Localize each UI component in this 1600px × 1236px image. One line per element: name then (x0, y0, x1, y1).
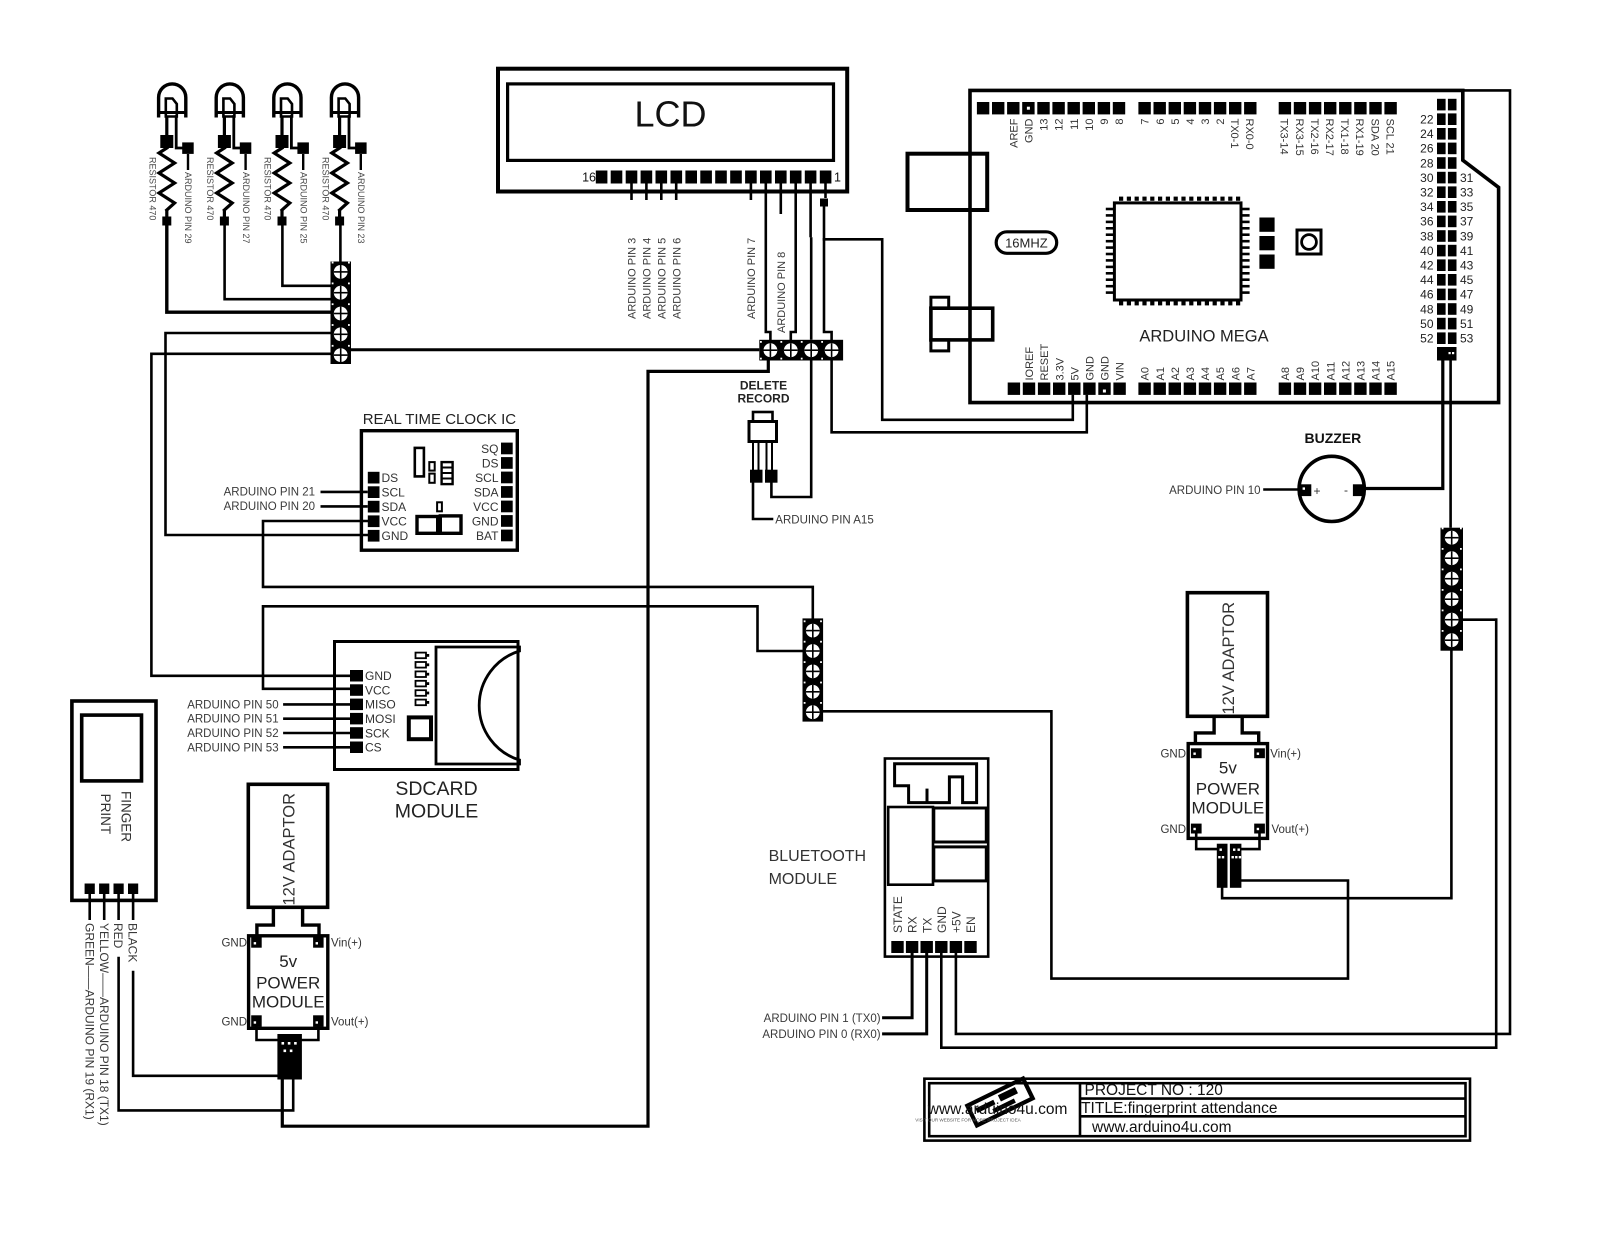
svg-text:ARDUINO PIN 10: ARDUINO PIN 10 (1169, 485, 1260, 497)
svg-text:RESISTOR 470: RESISTOR 470 (320, 157, 330, 220)
svg-text:3: 3 (1200, 119, 1212, 125)
svg-text:24: 24 (1420, 127, 1434, 141)
svg-text:BLUETOOTH: BLUETOOTH (769, 848, 867, 865)
svg-text:BUZZER: BUZZER (1305, 430, 1362, 446)
svg-text:ARDUINO PIN 1 (TX0): ARDUINO PIN 1 (TX0) (764, 1013, 881, 1025)
svg-text:MOSI: MOSI (365, 712, 396, 726)
svg-text:PROJECT NO : 120: PROJECT NO : 120 (1085, 1082, 1224, 1099)
svg-text:+5V: +5V (950, 911, 964, 933)
svg-text:26: 26 (1420, 142, 1434, 156)
svg-text:5v: 5v (1219, 759, 1237, 778)
svg-text:3.3V: 3.3V (1054, 357, 1066, 380)
svg-text:43: 43 (1460, 259, 1474, 273)
svg-text:PRINT: PRINT (98, 794, 113, 835)
svg-text:36: 36 (1420, 215, 1434, 229)
svg-text:TX3-14: TX3-14 (1278, 119, 1290, 155)
svg-text:A15: A15 (1386, 361, 1398, 381)
svg-text:45: 45 (1460, 273, 1474, 287)
svg-text:SCL 21: SCL 21 (1383, 119, 1395, 155)
svg-text:SDA: SDA (474, 485, 499, 499)
svg-text:12: 12 (1054, 119, 1066, 131)
svg-text:SQ: SQ (481, 442, 498, 456)
svg-text:A8: A8 (1280, 367, 1292, 380)
svg-text:RX3-15: RX3-15 (1293, 119, 1305, 156)
svg-text:GND: GND (1085, 356, 1097, 381)
svg-text:SDA 20: SDA 20 (1368, 119, 1380, 156)
svg-text:49: 49 (1460, 302, 1474, 316)
svg-text:A13: A13 (1356, 361, 1368, 381)
svg-text:A1: A1 (1155, 367, 1167, 380)
svg-text:TX0-1: TX0-1 (1228, 119, 1240, 149)
svg-text:10: 10 (1084, 119, 1096, 131)
svg-text:RESISTOR 470: RESISTOR 470 (205, 157, 215, 220)
svg-text:33: 33 (1460, 186, 1474, 200)
svg-text:31: 31 (1460, 171, 1474, 185)
svg-text:VIN: VIN (1115, 362, 1127, 380)
svg-text:13: 13 (1039, 119, 1051, 131)
svg-text:A9: A9 (1295, 367, 1307, 380)
svg-text:-: - (1344, 483, 1348, 497)
svg-text:34: 34 (1420, 200, 1434, 214)
svg-text:REAL TIME CLOCK IC: REAL TIME CLOCK IC (363, 411, 517, 428)
svg-text:22: 22 (1420, 113, 1434, 127)
svg-text:39: 39 (1460, 229, 1474, 243)
svg-text:28: 28 (1420, 156, 1434, 170)
svg-text:A4: A4 (1200, 367, 1212, 380)
svg-text:2: 2 (1215, 119, 1227, 125)
svg-text:6: 6 (1155, 119, 1167, 125)
svg-text:35: 35 (1460, 200, 1474, 214)
svg-text:51: 51 (1460, 317, 1474, 331)
svg-text:ARDUINO PIN 3: ARDUINO PIN 3 (627, 238, 639, 319)
svg-text:RECORD: RECORD (737, 392, 789, 406)
svg-text:5v: 5v (279, 952, 297, 971)
svg-text:RESISTOR 470: RESISTOR 470 (148, 157, 158, 220)
svg-text:+: + (1314, 484, 1321, 498)
svg-text:RX1-19: RX1-19 (1353, 119, 1365, 156)
svg-text:A14: A14 (1371, 361, 1383, 381)
svg-text:ARDUINO PIN 4: ARDUINO PIN 4 (642, 238, 654, 319)
svg-text:32: 32 (1420, 186, 1434, 200)
svg-text:ARDUINO PIN 23: ARDUINO PIN 23 (356, 172, 366, 244)
svg-text:ARDUINO PIN 5: ARDUINO PIN 5 (657, 238, 669, 319)
svg-text:ARDUINO PIN A15: ARDUINO PIN A15 (775, 514, 873, 526)
svg-text:GND: GND (365, 669, 392, 683)
svg-text:MODULE: MODULE (395, 801, 478, 823)
svg-text:ARDUINO PIN 53: ARDUINO PIN 53 (187, 742, 278, 754)
svg-text:TITLE:fingerprint attendance: TITLE:fingerprint attendance (1081, 1100, 1277, 1117)
svg-text:BAT: BAT (476, 529, 499, 543)
svg-text:GND: GND (472, 514, 499, 528)
svg-text:Vin(+): Vin(+) (331, 937, 362, 949)
svg-text:RESET: RESET (1039, 344, 1051, 381)
svg-text:VISIT OUR WEBSITE FOR MORE PRO: VISIT OUR WEBSITE FOR MORE PROJECT IDEA (915, 1118, 1021, 1123)
svg-text:MODULE: MODULE (1192, 799, 1265, 818)
svg-text:7: 7 (1140, 119, 1152, 125)
svg-text:RX2-17: RX2-17 (1323, 119, 1335, 156)
svg-text:GND: GND (221, 1017, 247, 1029)
svg-text:GND: GND (1100, 356, 1112, 381)
svg-text:38: 38 (1420, 229, 1434, 243)
svg-text:44: 44 (1420, 273, 1434, 287)
svg-text:12V ADAPTOR: 12V ADAPTOR (1220, 602, 1238, 715)
svg-text:SDCARD: SDCARD (395, 778, 477, 800)
svg-text:A3: A3 (1185, 367, 1197, 380)
svg-text:DS: DS (382, 471, 399, 485)
svg-text:11: 11 (1069, 119, 1081, 130)
svg-text:ARDUINO PIN 29: ARDUINO PIN 29 (183, 172, 193, 244)
svg-text:46: 46 (1420, 288, 1434, 302)
svg-text:TX1-18: TX1-18 (1338, 119, 1350, 155)
svg-text:YELLOW——ARDUINO PIN 18 (TX1): YELLOW——ARDUINO PIN 18 (TX1) (97, 923, 111, 1126)
svg-text:50: 50 (1420, 317, 1434, 331)
svg-text:4: 4 (1185, 119, 1197, 125)
svg-text:A11: A11 (1325, 362, 1337, 381)
svg-text:ARDUINO PIN 7: ARDUINO PIN 7 (746, 238, 758, 319)
svg-text:DELETE: DELETE (740, 379, 787, 393)
svg-text:ARDUINO PIN 27: ARDUINO PIN 27 (241, 172, 251, 244)
svg-text:FINGER: FINGER (119, 791, 134, 842)
svg-text:GND: GND (935, 906, 949, 933)
svg-text:16MHZ: 16MHZ (1005, 235, 1048, 250)
svg-text:RESISTOR 470: RESISTOR 470 (263, 157, 273, 220)
svg-text:LCD: LCD (634, 94, 706, 135)
svg-text:47: 47 (1460, 288, 1474, 302)
svg-text:42: 42 (1420, 259, 1434, 273)
svg-text:ARDUINO MEGA: ARDUINO MEGA (1139, 327, 1268, 345)
svg-text:GND: GND (221, 937, 247, 949)
svg-text:5V: 5V (1069, 366, 1081, 380)
svg-text:30: 30 (1420, 171, 1434, 185)
svg-text:ARDUINO PIN 20: ARDUINO PIN 20 (224, 501, 315, 513)
svg-text:AREF: AREF (1008, 118, 1020, 148)
svg-text:GND: GND (1160, 749, 1186, 761)
svg-text:ARDUINO PIN 51: ARDUINO PIN 51 (187, 714, 278, 726)
svg-text:SDA: SDA (382, 500, 407, 514)
svg-text:RED: RED (111, 923, 125, 949)
svg-text:40: 40 (1420, 244, 1434, 258)
svg-text:MODULE: MODULE (769, 871, 837, 888)
svg-text:ARDUINO PIN 50: ARDUINO PIN 50 (187, 699, 278, 711)
svg-text:A0: A0 (1140, 367, 1152, 380)
svg-text:POWER: POWER (256, 974, 320, 993)
svg-text:VCC: VCC (473, 500, 499, 514)
svg-text:ARDUINO PIN 6: ARDUINO PIN 6 (672, 238, 684, 319)
svg-text:RX: RX (906, 916, 920, 933)
svg-text:Vout(+): Vout(+) (1272, 824, 1310, 836)
svg-text:A5: A5 (1215, 367, 1227, 380)
svg-text:DS: DS (482, 456, 499, 470)
svg-text:16: 16 (582, 171, 596, 185)
svg-text:www.arduino4u.com: www.arduino4u.com (927, 1101, 1068, 1118)
svg-text:CS: CS (365, 741, 382, 755)
svg-text:MODULE: MODULE (252, 993, 325, 1012)
svg-text:53: 53 (1460, 332, 1474, 346)
svg-text:MISO: MISO (365, 698, 396, 712)
svg-text:ARDUINO PIN 21: ARDUINO PIN 21 (224, 487, 315, 499)
svg-text:ARDUINO PIN 8: ARDUINO PIN 8 (776, 252, 788, 333)
svg-text:EN: EN (964, 916, 978, 933)
svg-text:TX: TX (920, 918, 934, 933)
svg-text:48: 48 (1420, 302, 1434, 316)
svg-text:37: 37 (1460, 215, 1474, 229)
svg-text:A12: A12 (1340, 361, 1352, 381)
svg-text:Vin(+): Vin(+) (1270, 749, 1301, 761)
svg-text:8: 8 (1114, 119, 1126, 125)
svg-text:IOREF: IOREF (1024, 347, 1036, 381)
svg-text:5: 5 (1170, 119, 1182, 125)
svg-text:1: 1 (834, 171, 841, 185)
svg-text:SCL: SCL (382, 486, 406, 500)
svg-text:VCC: VCC (382, 515, 408, 529)
svg-text:GND: GND (1024, 118, 1036, 143)
svg-text:TX2-16: TX2-16 (1308, 119, 1320, 155)
svg-text:BLACK: BLACK (126, 923, 140, 962)
svg-text:9: 9 (1099, 119, 1111, 125)
svg-text:GND: GND (382, 529, 409, 543)
svg-text:www.arduino4u.com: www.arduino4u.com (1091, 1119, 1232, 1136)
svg-text:ARDUINO PIN 0 (RX0): ARDUINO PIN 0 (RX0) (762, 1029, 880, 1041)
svg-text:SCL: SCL (475, 471, 499, 485)
svg-text:41: 41 (1460, 244, 1474, 258)
svg-text:SCK: SCK (365, 726, 390, 740)
svg-text:12V ADAPTOR: 12V ADAPTOR (281, 793, 299, 906)
svg-text:A7: A7 (1245, 367, 1257, 380)
svg-text:ARDUINO PIN 52: ARDUINO PIN 52 (187, 728, 278, 740)
svg-text:GREEN——ARDUINO PIN 19 (RX1): GREEN——ARDUINO PIN 19 (RX1) (82, 923, 96, 1120)
svg-text:POWER: POWER (1196, 780, 1260, 799)
svg-text:GND: GND (1160, 824, 1186, 836)
svg-text:RX0-0: RX0-0 (1243, 119, 1255, 150)
svg-text:52: 52 (1420, 332, 1434, 346)
svg-text:ARDUINO PIN 25: ARDUINO PIN 25 (298, 172, 308, 244)
svg-text:VCC: VCC (365, 683, 391, 697)
svg-text:A10: A10 (1310, 361, 1322, 381)
svg-text:A2: A2 (1170, 367, 1182, 380)
svg-text:Vout(+): Vout(+) (331, 1017, 369, 1029)
svg-text:A6: A6 (1230, 367, 1242, 380)
svg-text:STATE: STATE (891, 896, 905, 933)
